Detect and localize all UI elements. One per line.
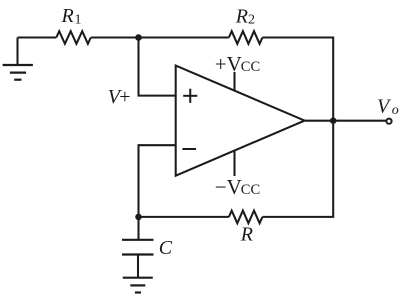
resistor R (229, 211, 263, 224)
label V+ (108, 86, 131, 108)
label -VCC (215, 175, 260, 199)
wire: node B down to capacitor (137, 217, 139, 240)
svg-text:R: R (61, 5, 74, 27)
svg-text:R: R (235, 6, 248, 28)
node A (junction at top) (135, 34, 142, 41)
svg-text:+V: +V (215, 52, 242, 76)
-VCC supply stub (233, 150, 235, 176)
label R2 (235, 6, 255, 28)
resistor R2 (229, 31, 263, 44)
svg-text:1: 1 (75, 13, 82, 28)
svg-text:o: o (392, 103, 399, 118)
label R1 (61, 5, 82, 28)
svg-text:CC: CC (241, 182, 260, 198)
wire: R2 to top-right corner, down to output node (262, 38, 333, 121)
+VCC supply stub (233, 72, 235, 91)
capacitor C (122, 240, 154, 278)
node B (bottom junction) (135, 214, 142, 221)
op-amp U1 (176, 66, 305, 176)
svg-text:V: V (377, 96, 392, 118)
wire: R to node B (139, 216, 229, 218)
wire: node A to R2 (139, 36, 229, 38)
wire: R1 to node A (91, 36, 139, 38)
node C (output junction) (330, 117, 337, 124)
wire: output of op-amp to terminal (305, 120, 386, 122)
ground (top-left) (3, 38, 33, 80)
ground (bottom) (123, 278, 153, 293)
svg-text:CC: CC (241, 59, 260, 75)
svg-text:−V: −V (215, 175, 242, 199)
terminal Vo (open circle) (386, 119, 391, 124)
label +VCC (215, 52, 260, 76)
svg-text:+: + (119, 86, 130, 108)
wire: output node down, left to R (262, 121, 333, 217)
wire: - input left and down to bottom junction (139, 145, 176, 217)
wire: ground to R1 (18, 36, 57, 38)
svg-text:R: R (240, 224, 253, 246)
wire: node A down and right to + input (139, 38, 176, 96)
label Vo (377, 96, 399, 118)
resistor R1 (56, 31, 91, 44)
svg-text:C: C (159, 237, 173, 259)
svg-text:2: 2 (248, 13, 255, 28)
